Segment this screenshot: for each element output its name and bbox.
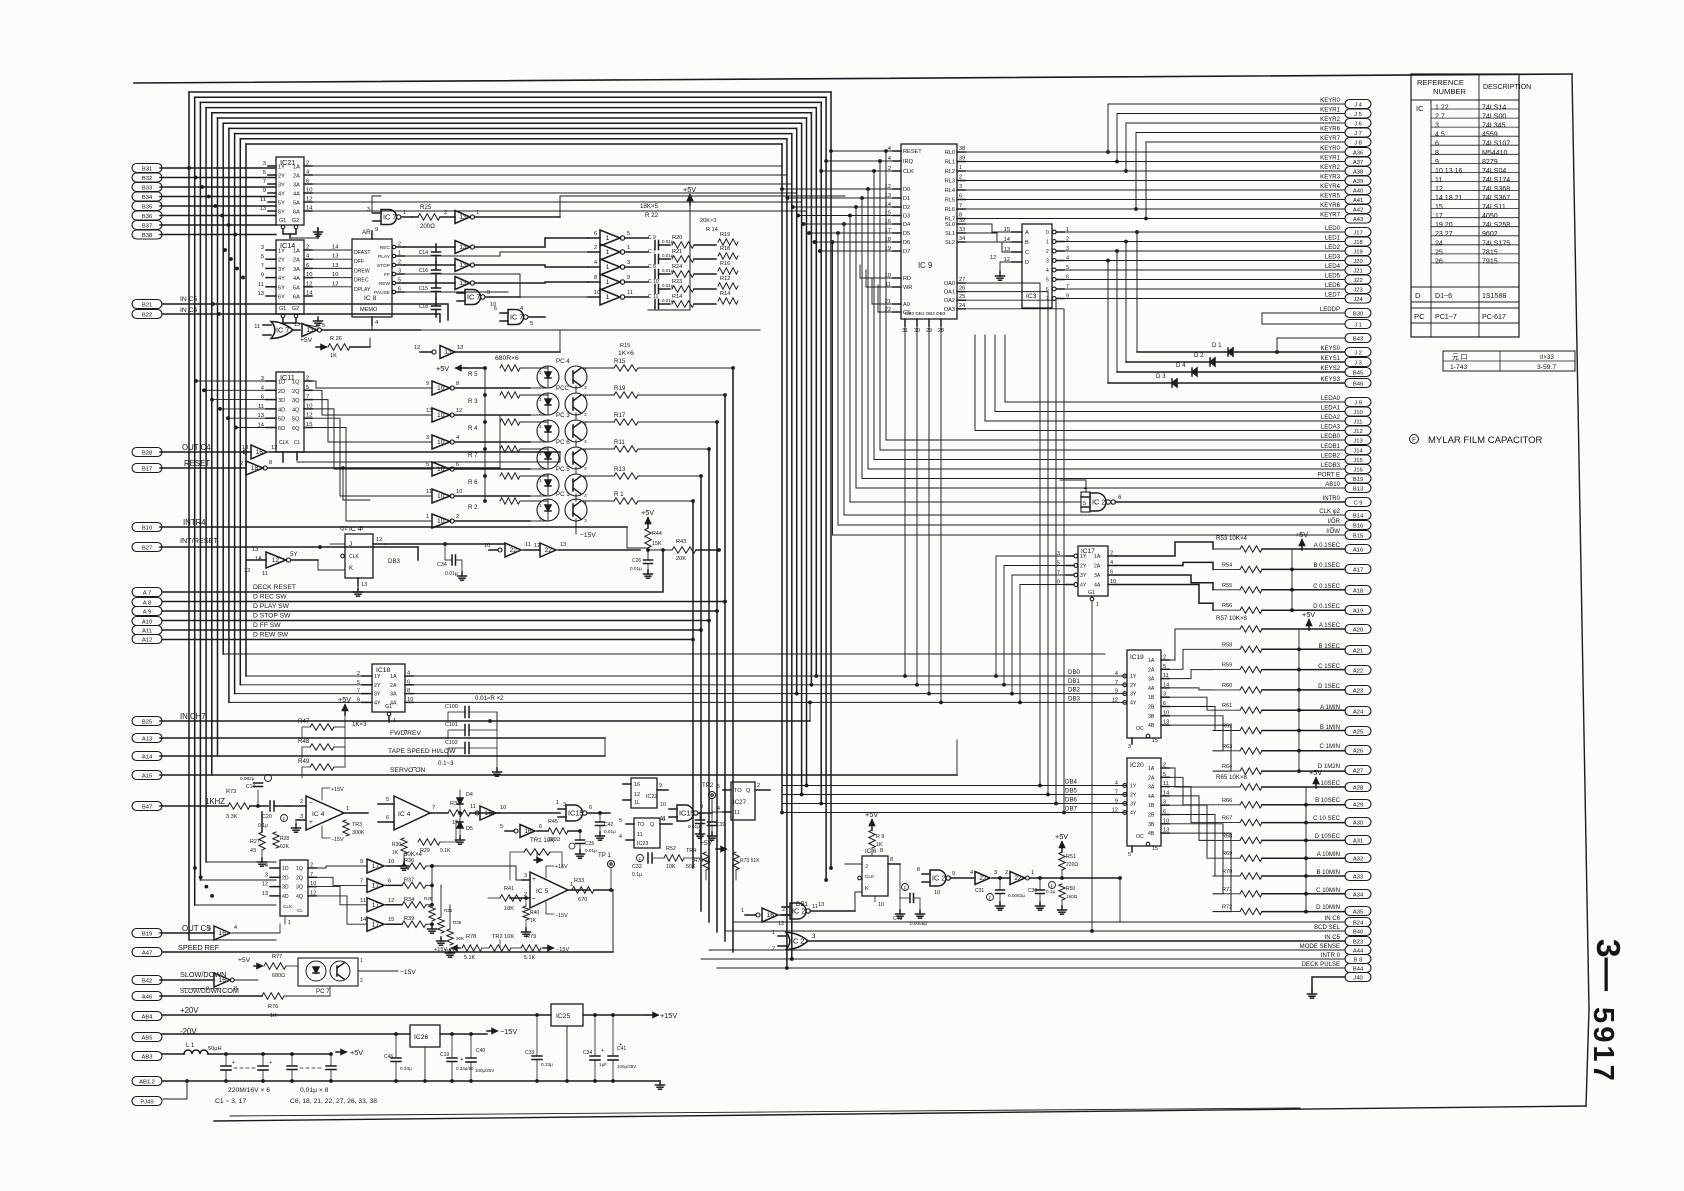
svg-text:1Y: 1Y xyxy=(278,249,285,255)
svg-text:TR2 10K: TR2 10K xyxy=(492,934,514,940)
svg-text:R34: R34 xyxy=(404,897,414,903)
svg-text:R 3: R 3 xyxy=(468,398,478,405)
resistor R25 200ohm xyxy=(412,204,455,230)
svg-text:13: 13 xyxy=(459,262,467,269)
svg-text:1A: 1A xyxy=(1148,766,1155,772)
resistor R29 9.1K + R30 1K xyxy=(392,820,456,870)
svg-text:KEYR1: KEYR1 xyxy=(1320,156,1340,162)
connector AB3 xyxy=(132,1052,162,1061)
svg-text:1Y: 1Y xyxy=(1080,554,1087,560)
svg-text:D 4: D 4 xyxy=(1176,362,1186,369)
svg-text:R48: R48 xyxy=(298,738,310,745)
svg-text:IN C6: IN C6 xyxy=(1325,916,1341,922)
svg-text:J18: J18 xyxy=(1353,240,1362,246)
svg-text:J40: J40 xyxy=(1353,975,1362,981)
svg-text:IC 2: IC 2 xyxy=(932,874,945,883)
svg-text:LED6: LED6 xyxy=(1325,283,1341,289)
svg-text:10: 10 xyxy=(878,902,884,908)
svg-text:5: 5 xyxy=(717,784,720,790)
svg-text:38: 38 xyxy=(959,146,965,152)
svg-text:STOP: STOP xyxy=(377,263,390,269)
svg-text:9: 9 xyxy=(700,804,703,810)
svg-text:F: F xyxy=(639,857,642,862)
svg-text:1 22: 1 22 xyxy=(1435,105,1449,112)
svg-text:R67: R67 xyxy=(1222,816,1232,822)
svg-text:R19: R19 xyxy=(720,232,730,238)
diode D3 xyxy=(1108,373,1344,387)
wire +5V opto rail xyxy=(436,364,485,501)
electrolytic capacitor bank 220M xyxy=(215,1054,377,1105)
svg-text:B27: B27 xyxy=(142,545,152,551)
svg-text:A36: A36 xyxy=(1353,150,1363,156)
test point TP1 xyxy=(598,852,615,890)
resistor ladder R57-R64 10Kx8 xyxy=(1213,610,1345,774)
svg-text:5: 5 xyxy=(1046,278,1049,284)
svg-text:J 4: J 4 xyxy=(1354,102,1363,108)
svg-text:R68: R68 xyxy=(1222,833,1232,839)
svg-text:0.01μ: 0.01μ xyxy=(445,571,458,577)
svg-text:0.01μ × 8: 0.01μ × 8 xyxy=(300,1087,329,1094)
svg-text:D 2: D 2 xyxy=(1194,352,1204,359)
svg-text:4: 4 xyxy=(594,260,597,266)
IC9 keyboard/display controller 8279 xyxy=(885,144,965,334)
svg-text:B40: B40 xyxy=(1353,929,1363,935)
svg-text:74LS368: 74LS368 xyxy=(1482,186,1510,193)
svg-text:D 0.1SEC: D 0.1SEC xyxy=(1313,604,1341,610)
IC3 BCD decoder xyxy=(1004,224,1069,308)
svg-text:R76: R76 xyxy=(268,1004,278,1010)
svg-text:+15V: +15V xyxy=(331,787,344,793)
svg-text:3D: 3D xyxy=(278,398,285,404)
wire bus bundle middle vertical (11 lines, x782-831) xyxy=(780,92,833,970)
svg-text:A0: A0 xyxy=(903,302,910,308)
connector A15 xyxy=(132,771,162,780)
svg-text:18: 18 xyxy=(251,465,259,472)
svg-text:0.1μ: 0.1μ xyxy=(1046,889,1056,894)
svg-text:AB3: AB3 xyxy=(142,1054,153,1060)
svg-text:+5V: +5V xyxy=(1309,768,1322,777)
svg-text:REW: REW xyxy=(379,281,391,287)
svg-text:15: 15 xyxy=(388,917,394,923)
connector A18 (C 0.1SEC) xyxy=(1345,586,1371,595)
svg-text:10 13 16: 10 13 16 xyxy=(1435,168,1463,175)
svg-text:3: 3 xyxy=(584,518,587,523)
svg-text:DB6: DB6 xyxy=(1065,797,1078,804)
svg-text:−: − xyxy=(532,896,536,903)
svg-text:3D: 3D xyxy=(282,885,289,891)
svg-text:B25: B25 xyxy=(142,719,152,725)
svg-text:1A: 1A xyxy=(1094,554,1101,560)
resistor ladder R65-R72 10Kx8 xyxy=(1213,768,1345,915)
svg-text:1: 1 xyxy=(476,210,479,216)
svg-text:C 10: C 10 xyxy=(648,279,659,285)
svg-text:D4: D4 xyxy=(903,222,910,228)
svg-text:10: 10 xyxy=(306,188,312,194)
svg-text:WR: WR xyxy=(903,285,912,291)
svg-text:Q: Q xyxy=(746,788,751,794)
svg-text:4: 4 xyxy=(970,870,973,876)
wire opto -15V return xyxy=(576,526,596,539)
svg-text:300K: 300K xyxy=(352,830,365,836)
svg-text:4A: 4A xyxy=(1148,686,1155,692)
connector J14 (LEDB1) xyxy=(1345,446,1371,455)
svg-text:3A: 3A xyxy=(390,692,397,698)
svg-text:9: 9 xyxy=(1115,799,1118,805)
svg-text:TAPE SPEED HI/LOW: TAPE SPEED HI/LOW xyxy=(388,748,456,755)
svg-text:22: 22 xyxy=(1014,875,1022,882)
svg-text:4: 4 xyxy=(520,306,523,312)
connector B14 (CLK φ2) xyxy=(1345,511,1371,520)
svg-text:CL: CL xyxy=(297,908,303,913)
svg-text:10: 10 xyxy=(437,493,445,500)
svg-text:9: 9 xyxy=(659,783,662,789)
connector J12 (LEDA3) xyxy=(1345,426,1371,435)
wire bottom border xyxy=(214,1106,1586,1121)
svg-text:2: 2 xyxy=(306,376,309,382)
svg-text:RD: RD xyxy=(903,276,911,282)
wire right border xyxy=(1572,74,1589,1106)
svg-text:22: 22 xyxy=(510,547,518,554)
svg-text:2: 2 xyxy=(959,175,962,181)
svg-text:RL6: RL6 xyxy=(945,207,955,213)
svg-text:B15: B15 xyxy=(1353,533,1363,539)
svg-text:1: 1 xyxy=(398,251,401,257)
connector B37 xyxy=(132,221,162,230)
svg-text:IC 8: IC 8 xyxy=(364,295,377,302)
diode D4 xyxy=(1117,362,1344,376)
svg-text:IC15: IC15 xyxy=(568,809,583,818)
svg-text:74LS04: 74LS04 xyxy=(1482,168,1506,175)
svg-text:OA0: OA0 xyxy=(944,281,955,287)
connector J 9 (LEDA0) xyxy=(1345,398,1371,407)
svg-text:D REC SW: D REC SW xyxy=(253,594,287,601)
svg-text:5Y: 5Y xyxy=(290,551,298,558)
svg-text:CLK: CLK xyxy=(903,169,914,175)
svg-text:R70: R70 xyxy=(1222,869,1232,875)
connector B47 xyxy=(132,802,162,811)
svg-text:16: 16 xyxy=(485,810,493,817)
svg-text:IN C5: IN C5 xyxy=(1325,935,1341,941)
svg-text:REC: REC xyxy=(380,245,391,251)
svg-text:LEDB3: LEDB3 xyxy=(1321,463,1341,469)
reference table PC row xyxy=(1411,307,1519,309)
connector B38 xyxy=(132,230,162,239)
wire LEDDP B30 J1 bracket xyxy=(1262,313,1345,324)
connector AB4 xyxy=(132,1012,162,1021)
svg-text:R30: R30 xyxy=(392,842,401,848)
connector B19 xyxy=(132,929,162,938)
svg-text:7: 7 xyxy=(310,872,313,878)
svg-text:13: 13 xyxy=(426,408,432,414)
optocoupler column PC4 PCC PC3 PC6 PC5 PC1 xyxy=(468,358,735,526)
svg-text:3: 3 xyxy=(208,926,211,932)
svg-text:IC22: IC22 xyxy=(646,794,657,800)
svg-text:30K: 30K xyxy=(456,936,464,941)
svg-text:IC 4: IC 4 xyxy=(312,811,325,818)
svg-text:1L: 1L xyxy=(634,800,640,806)
connector AB1.2 xyxy=(132,1077,162,1086)
svg-text:16: 16 xyxy=(767,912,775,919)
svg-text:C100: C100 xyxy=(445,704,458,710)
svg-text:1: 1 xyxy=(606,264,610,271)
svg-text:−15V: −15V xyxy=(500,1027,517,1036)
svg-text:680Ω: 680Ω xyxy=(272,973,285,979)
connector B42 xyxy=(132,976,162,985)
svg-text:C 11: C 11 xyxy=(648,294,658,300)
svg-text:74LS367: 74LS367 xyxy=(1482,195,1510,202)
svg-text:+: + xyxy=(269,1060,272,1066)
svg-text:2: 2 xyxy=(310,863,313,869)
connector A 8 xyxy=(132,598,162,607)
svg-text:10: 10 xyxy=(456,489,462,495)
svg-text:2: 2 xyxy=(300,799,303,805)
svg-text:R 5: R 5 xyxy=(468,371,478,378)
svg-text:B31: B31 xyxy=(142,166,152,172)
svg-text:+: + xyxy=(460,1057,463,1063)
svg-text:6: 6 xyxy=(594,231,597,237)
connector J 8 (KEYR7) xyxy=(1345,138,1371,147)
wire IC9 input taps from bus xyxy=(780,149,893,312)
svg-text:7: 7 xyxy=(261,263,264,269)
wire PJ49 stub xyxy=(163,1079,189,1099)
svg-text:−15V: −15V xyxy=(555,913,568,919)
resistor R77 680ohm +5V xyxy=(238,954,298,979)
svg-text:8: 8 xyxy=(1435,150,1439,157)
svg-text:1B: 1B xyxy=(1148,695,1155,701)
svg-text:R55: R55 xyxy=(1222,583,1232,589)
svg-text:RL0: RL0 xyxy=(945,150,955,156)
svg-text:DECK RESET: DECK RESET xyxy=(253,584,296,591)
svg-text:−15V: −15V xyxy=(580,532,596,539)
svg-text:C33: C33 xyxy=(525,1050,534,1056)
connector B23 (IN C5) xyxy=(1345,937,1371,946)
svg-text:R53 10K×4: R53 10K×4 xyxy=(1216,535,1248,542)
svg-text:7: 7 xyxy=(306,394,309,400)
connector A30 (C 10 SEC) xyxy=(1345,818,1371,827)
svg-text:A46: A46 xyxy=(142,994,152,1000)
svg-text:5: 5 xyxy=(263,170,266,176)
svg-text:1Y: 1Y xyxy=(278,165,285,171)
svg-text:15K: 15K xyxy=(652,541,662,547)
svg-text:A28: A28 xyxy=(1353,785,1363,791)
IC17 quad buffer xyxy=(1057,546,1116,933)
svg-text:13: 13 xyxy=(459,214,467,221)
svg-text:A 0.1SEC: A 0.1SEC xyxy=(1314,543,1341,549)
svg-text:D 3: D 3 xyxy=(1156,373,1166,380)
svg-text:元 口: 元 口 xyxy=(1452,353,1467,361)
connector A 9 xyxy=(132,607,162,616)
resistor R28 62K feedback + TR3 300K xyxy=(273,820,365,850)
svg-text:5.1K: 5.1K xyxy=(524,955,535,961)
svg-text:8: 8 xyxy=(234,986,237,992)
svg-text:4 5: 4 5 xyxy=(1435,132,1445,139)
svg-text:3Q: 3Q xyxy=(292,398,300,404)
svg-text:13: 13 xyxy=(252,547,258,553)
svg-text:4D: 4D xyxy=(282,894,289,900)
svg-text:IC23: IC23 xyxy=(637,841,648,847)
svg-text:12: 12 xyxy=(310,890,316,896)
svg-text:A12: A12 xyxy=(142,637,152,643)
svg-text:17: 17 xyxy=(372,902,380,909)
svg-text:17: 17 xyxy=(372,921,380,928)
svg-text:1: 1 xyxy=(539,478,542,483)
svg-text:1D: 1D xyxy=(282,866,289,872)
svg-text:B44: B44 xyxy=(1353,966,1364,972)
svg-text:A 9: A 9 xyxy=(143,609,151,615)
svg-text:12: 12 xyxy=(262,882,268,888)
svg-text:5A: 5A xyxy=(293,285,300,291)
connector B21 xyxy=(132,300,162,309)
svg-text:RL2: RL2 xyxy=(945,169,955,175)
IC2 OR gate bottom-left xyxy=(772,930,1345,952)
svg-text:1Y: 1Y xyxy=(1130,784,1137,790)
svg-text:C 9: C 9 xyxy=(648,235,656,241)
svg-text:R65 10K×8: R65 10K×8 xyxy=(1216,774,1248,781)
svg-text:9: 9 xyxy=(263,188,266,194)
svg-text:R14: R14 xyxy=(720,291,730,297)
svg-text:10: 10 xyxy=(437,518,445,525)
svg-text:A26: A26 xyxy=(1353,748,1363,754)
svg-text:A33: A33 xyxy=(1353,874,1363,880)
resistor R43 20K xyxy=(648,539,721,562)
svg-text:IN CH7: IN CH7 xyxy=(180,712,206,721)
svg-text:IC25: IC25 xyxy=(556,1013,570,1020)
inverter 17 column + R36 ladder xyxy=(316,851,434,931)
svg-text:14: 14 xyxy=(332,245,339,251)
svg-text:2 7: 2 7 xyxy=(1435,114,1445,121)
IC7 OR gate xyxy=(254,322,300,339)
connector J15 (LEDB2) xyxy=(1345,455,1371,464)
svg-text:R15: R15 xyxy=(620,343,630,349)
svg-text:A 8: A 8 xyxy=(143,600,151,606)
connector A36 (KEYR0) xyxy=(1345,148,1371,157)
svg-text:3Q: 3Q xyxy=(296,885,303,891)
svg-text:D 10SEC: D 10SEC xyxy=(1315,834,1341,840)
resistor R9 1K +5V xyxy=(865,810,884,856)
svg-text:2A: 2A xyxy=(293,174,300,180)
svg-text:C1 ~ 3, 17: C1 ~ 3, 17 xyxy=(215,1098,246,1105)
svg-text:D6: D6 xyxy=(903,240,910,246)
svg-text:PJ49: PJ49 xyxy=(140,1099,153,1105)
svg-text:5: 5 xyxy=(619,818,622,824)
svg-text:1B: 1B xyxy=(1148,803,1155,809)
svg-text:D1: D1 xyxy=(903,196,910,202)
svg-text:4A: 4A xyxy=(293,192,300,198)
svg-text:0.33μ: 0.33μ xyxy=(541,1062,553,1067)
svg-text:1K: 1K xyxy=(876,842,883,848)
svg-text:LED1: LED1 xyxy=(1325,236,1341,242)
svg-text:C 10 SEC: C 10 SEC xyxy=(1313,816,1341,822)
svg-text:26: 26 xyxy=(1435,258,1443,265)
svg-text:12: 12 xyxy=(388,898,394,904)
svg-text:J24: J24 xyxy=(1353,297,1363,303)
svg-text:9: 9 xyxy=(261,273,264,279)
svg-text:R 6: R 6 xyxy=(468,479,478,486)
svg-text:8: 8 xyxy=(269,460,272,466)
svg-text:2: 2 xyxy=(1005,870,1008,876)
resistor ladder R53-R56 10Kx4 xyxy=(1213,530,1345,613)
svg-text:+5V: +5V xyxy=(238,957,251,964)
connector PJ49 xyxy=(132,1097,162,1106)
svg-text:R11: R11 xyxy=(614,439,625,446)
svg-text:INTR0: INTR0 xyxy=(1323,496,1341,502)
svg-text:11: 11 xyxy=(260,197,266,203)
svg-text:23 27: 23 27 xyxy=(1435,231,1453,238)
connector A41 (KEYR5) xyxy=(1345,195,1371,204)
IC2 NAND INTR0 xyxy=(848,214,1345,512)
connector A43 (KEYR7) xyxy=(1345,214,1371,223)
svg-text:1K: 1K xyxy=(392,850,399,856)
svg-text:0.1μ: 0.1μ xyxy=(258,823,268,829)
svg-text:7815: 7815 xyxy=(1482,249,1498,256)
svg-text:+5V: +5V xyxy=(338,695,351,704)
svg-text:C30: C30 xyxy=(1028,888,1037,894)
svg-text:LED2: LED2 xyxy=(1325,245,1341,251)
svg-text:C18: C18 xyxy=(419,304,428,310)
svg-text:18K: 18K xyxy=(504,906,514,912)
svg-text:1: 1 xyxy=(570,882,573,888)
svg-text:+5V: +5V xyxy=(1055,832,1068,841)
svg-text:3Y: 3Y xyxy=(278,183,285,189)
svg-text:B21: B21 xyxy=(142,302,152,308)
svg-text:PC 6: PC 6 xyxy=(556,439,570,446)
svg-text:R58: R58 xyxy=(1222,642,1232,648)
svg-text:0.01μ: 0.01μ xyxy=(604,829,616,834)
wire J40 ground stub xyxy=(1312,977,1345,990)
svg-text:J16: J16 xyxy=(1353,467,1362,473)
svg-text:IRQ: IRQ xyxy=(903,159,914,165)
svg-text:3A: 3A xyxy=(293,183,300,189)
svg-text:KEYR7: KEYR7 xyxy=(1320,213,1340,219)
svg-text:PC 3: PC 3 xyxy=(556,412,570,419)
svg-text:OA3: OA3 xyxy=(944,307,955,313)
svg-text:7: 7 xyxy=(263,179,266,185)
svg-text:2A: 2A xyxy=(1148,667,1155,673)
svg-text:1Q: 1Q xyxy=(292,380,300,386)
svg-text:C 7: C 7 xyxy=(648,249,656,255)
capacitor C43 0.0056u xyxy=(893,864,927,926)
svg-text:RL1: RL1 xyxy=(945,160,955,166)
IC6 JK flip-flop xyxy=(845,848,900,908)
svg-text:74LS11: 74LS11 xyxy=(1482,204,1506,211)
svg-text:10: 10 xyxy=(934,890,940,896)
svg-text:1: 1 xyxy=(346,806,349,812)
wire OUT C5 line + inverter xyxy=(160,924,280,940)
wire 1KHZ line xyxy=(160,805,228,807)
svg-text:7: 7 xyxy=(360,878,363,884)
svg-text:2Y: 2Y xyxy=(1130,683,1137,689)
svg-text:11: 11 xyxy=(426,489,432,495)
svg-text:IC15: IC15 xyxy=(679,809,694,818)
inverter 16 after R31 xyxy=(470,804,560,820)
svg-text:J19: J19 xyxy=(1353,249,1362,255)
svg-text:LEDA1: LEDA1 xyxy=(1321,406,1341,412)
svg-text:1K: 1K xyxy=(330,353,337,359)
svg-text:R23: R23 xyxy=(672,279,682,285)
svg-text:1A: 1A xyxy=(1148,658,1155,664)
svg-text:11: 11 xyxy=(1435,177,1442,184)
svg-text:13: 13 xyxy=(294,322,300,328)
svg-text:10: 10 xyxy=(310,881,316,887)
svg-text:−: − xyxy=(309,800,313,807)
svg-text:J11: J11 xyxy=(1354,419,1363,425)
svg-text:AB10: AB10 xyxy=(1325,482,1340,488)
svg-text:J21: J21 xyxy=(1353,268,1362,274)
svg-text:3: 3 xyxy=(263,161,266,167)
svg-text:A10: A10 xyxy=(142,619,152,625)
svg-text:A37: A37 xyxy=(1353,160,1363,166)
svg-text:R 7: R 7 xyxy=(468,452,478,459)
